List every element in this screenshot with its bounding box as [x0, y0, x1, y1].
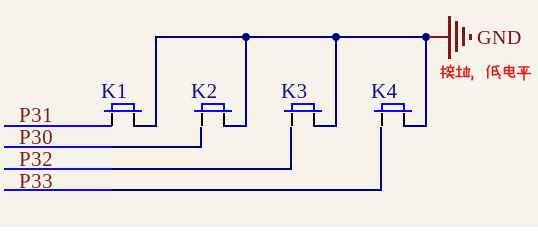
- wire: K2 right pin to riser: [223, 125, 247, 127]
- pushbutton K2: [194, 110, 232, 112]
- wire: P33 run to K4: [112, 189, 382, 191]
- designator K4: [371, 81, 398, 102]
- net label P31: [19, 105, 53, 126]
- wire: K1 right riser: [155, 36, 157, 127]
- 平: [518, 67, 531, 80]
- pushbutton K4: [374, 110, 412, 112]
- wire: P33 stub (blue): [4, 189, 112, 191]
- wire: P32 run to K3: [112, 168, 292, 170]
- junction on rail above K2: [242, 33, 250, 41]
- GND bar 1: [448, 16, 451, 59]
- power port GND lead: [428, 36, 449, 38]
- wire: K4 left drop: [380, 127, 382, 191]
- designator K2: [191, 81, 218, 102]
- wire: P31 stub (blue): [4, 125, 112, 127]
- GND bar 3: [462, 27, 465, 46]
- net label P32: [19, 149, 53, 170]
- wire: K4 right riser: [425, 36, 427, 127]
- wire: P30 stub (blue): [4, 146, 112, 148]
- wire: K4 right pin to riser: [403, 125, 427, 127]
- GND bar 2: [455, 21, 458, 52]
- 低: [487, 66, 490, 79]
- GND bar 4: [469, 34, 472, 40]
- wire: K3 right riser: [335, 36, 337, 127]
- ，: [471, 76, 474, 79]
- wire: P30 run to K2: [112, 146, 202, 148]
- GND text: [477, 28, 522, 48]
- designator K1: [101, 81, 128, 102]
- wire: K1 right pin to riser: [133, 125, 157, 127]
- wire: K3 left drop: [290, 127, 292, 170]
- junction on rail at GND: [422, 33, 430, 41]
- pushbutton K1: [104, 110, 142, 112]
- net label P30: [19, 127, 53, 148]
- pushbutton K3: [284, 110, 322, 112]
- designator K3: [281, 81, 308, 102]
- junction on rail above K3: [332, 33, 340, 41]
- wire: K3 right pin to riser: [313, 125, 337, 127]
- wire: top GND rail: [155, 36, 426, 38]
- net label P33: [19, 171, 53, 192]
- 电: [505, 66, 515, 78]
- wire: K2 left drop: [200, 127, 202, 148]
- annotation: 接地，低电平 (red): [440, 64, 532, 82]
- 接: [441, 66, 446, 78]
- wire: P32 stub (blue): [4, 168, 112, 170]
- wire: K2 right riser: [245, 36, 247, 127]
- 地: [456, 66, 462, 77]
